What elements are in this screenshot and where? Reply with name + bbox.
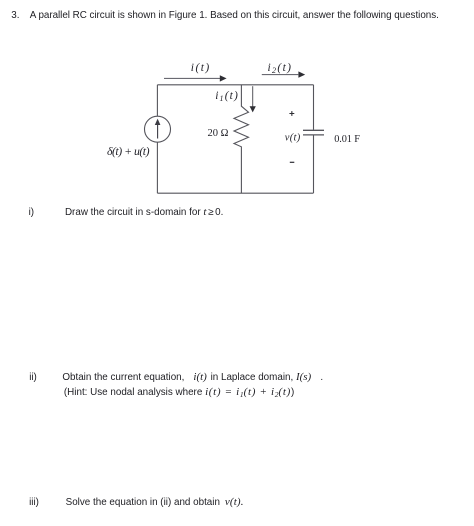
resistor R1 20 ohm branch <box>234 85 249 193</box>
wire right lower <box>313 135 315 193</box>
wire left upper <box>156 85 158 116</box>
current source I1 circle <box>145 116 171 142</box>
capacitor C1 plates <box>303 129 324 131</box>
current source arrow <box>155 119 161 139</box>
title line: problem statement <box>11 10 439 21</box>
label minus <box>290 161 295 163</box>
svg-text:v(t): v(t) <box>285 133 301 144</box>
wire left lower <box>156 142 158 193</box>
question i <box>29 207 224 218</box>
question ii line 1 <box>29 372 323 383</box>
svg-text:0.01 F: 0.01 F <box>334 134 360 145</box>
question ii line 2 <box>64 387 294 400</box>
question iii <box>29 497 244 508</box>
svg-text:i2(t): i2(t) <box>268 62 293 75</box>
arrow i1(t) down into resistor <box>250 86 256 112</box>
svg-text:δ(t) + u(t): δ(t) + u(t) <box>107 144 150 158</box>
wire bottom <box>157 192 313 194</box>
svg-text:20 Ω: 20 Ω <box>208 128 229 139</box>
arrow i(t) <box>164 75 227 81</box>
wire right upper <box>313 85 315 130</box>
arrow i2(t) <box>262 71 305 77</box>
label plus <box>289 111 294 116</box>
svg-text:i(t): i(t) <box>191 62 211 74</box>
wire top <box>157 84 313 86</box>
svg-text:i1(t): i1(t) <box>215 90 239 103</box>
